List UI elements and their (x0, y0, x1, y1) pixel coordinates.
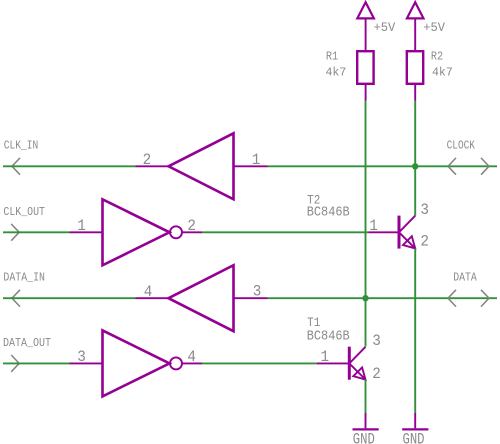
buffer gate U3 (DATA, left-pointing triangle) (169, 265, 234, 331)
bubble (U2 output) (170, 226, 182, 238)
wire U4 output to T1 base (202, 362, 317, 364)
pin 1 lead (gate U2 input) (70, 231, 103, 233)
pin arrow CLK_IN (points left) (12, 158, 20, 175)
svg-text:2: 2 (420, 233, 429, 251)
svg-text:1: 1 (321, 348, 330, 366)
junction DATA / column A (362, 295, 368, 301)
wire CLK_OUT (3, 231, 70, 233)
svg-text:CLOCK: CLOCK (447, 140, 475, 153)
pin 1 lead (T1 base) (317, 362, 349, 364)
pin 3 lead (U3 input) (234, 297, 268, 299)
svg-text:3: 3 (253, 283, 262, 301)
resistor R2 (407, 51, 423, 100)
svg-text:2: 2 (372, 365, 381, 383)
bubble (U4 output) (170, 357, 182, 369)
svg-text:DATA_OUT: DATA_OUT (3, 337, 51, 350)
svg-text:BC846B: BC846B (307, 204, 350, 220)
supply symbol +5V (left, VCC column A) (357, 2, 374, 51)
inverter gate U2 (right-pointing triangle) (103, 199, 170, 265)
pin arrows DATA (bidirectional) (448, 290, 489, 307)
svg-text:4k7: 4k7 (432, 66, 453, 80)
wire T2 emitter to GND (414, 248, 416, 413)
resistor R1 (357, 51, 373, 100)
svg-text:2: 2 (187, 217, 196, 235)
wire T1 emitter to GND (365, 380, 367, 414)
svg-text:+5V: +5V (423, 20, 445, 35)
svg-text:3: 3 (372, 332, 381, 350)
pin 1 lead (T2 base) (369, 231, 400, 233)
wire DATA (268, 297, 498, 299)
svg-text:4k7: 4k7 (326, 66, 347, 80)
buffer gate U1 (CLK, left-pointing triangle) (169, 133, 234, 199)
svg-text:1: 1 (369, 217, 378, 235)
svg-text:CLK_IN: CLK_IN (4, 140, 39, 153)
pin arrows CLOCK (bidirectional) (448, 158, 489, 175)
pin 4 lead (gate U3 output) (136, 297, 169, 299)
pin 2 lead (U2 output) (182, 231, 202, 233)
pin 2 lead (gate U1 output) (136, 165, 169, 167)
pin arrow CLK_OUT (points right) (11, 224, 19, 241)
junction CLOCK / column B (412, 163, 418, 169)
wire DATA_IN (3, 297, 136, 299)
wire CLOCK (268, 165, 498, 167)
pin arrow DATA_OUT (points right) (11, 355, 19, 372)
svg-text:BC846B: BC846B (307, 328, 350, 344)
svg-text:4: 4 (187, 348, 196, 366)
svg-text:GND: GND (403, 430, 425, 444)
wire CLK_IN (3, 165, 136, 167)
supply symbol +5V (right, VCC column B) (407, 2, 424, 51)
ground symbol GND (left) (353, 413, 379, 429)
transistor T1 (BC846B) (349, 347, 365, 380)
pin 4 lead (U4 output) (182, 362, 202, 364)
wire column B (R2 down to T2 collector) (414, 101, 416, 216)
wire U2 output to T2 base (202, 231, 369, 233)
ground symbol GND (right) (402, 413, 428, 429)
svg-text:DATA: DATA (453, 272, 477, 285)
pin 3 lead (gate U4 input) (70, 362, 103, 364)
transistor T2 (BC846B) (399, 216, 415, 249)
wire column A (R1 down to T1 collector) (365, 101, 367, 347)
wire DATA_OUT (3, 362, 70, 364)
pin arrow DATA_IN (points left) (12, 290, 20, 307)
svg-text:3: 3 (420, 201, 429, 219)
svg-text:DATA_IN: DATA_IN (3, 272, 45, 285)
svg-text:4: 4 (144, 283, 153, 301)
svg-text:1: 1 (77, 217, 86, 235)
svg-text:CLK_OUT: CLK_OUT (3, 206, 45, 219)
pin 1 lead (U1 input) (234, 165, 268, 167)
inverter gate U4 (right-pointing triangle) (103, 330, 170, 396)
svg-text:R1: R1 (326, 51, 338, 64)
svg-text:R2: R2 (431, 51, 443, 64)
svg-text:+5V: +5V (374, 20, 396, 35)
svg-text:3: 3 (77, 348, 86, 366)
svg-text:GND: GND (353, 430, 375, 444)
svg-text:2: 2 (143, 151, 152, 169)
svg-text:1: 1 (252, 151, 261, 169)
